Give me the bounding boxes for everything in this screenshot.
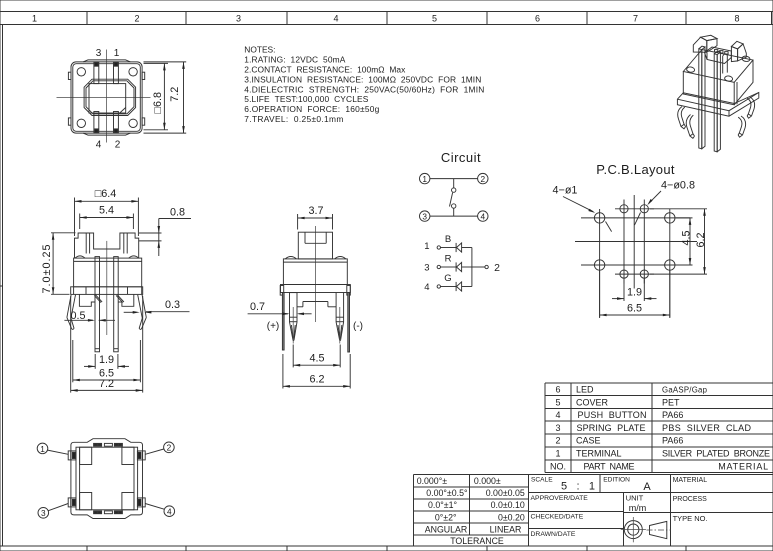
front view: dimension 7.2 extension and line (71, 296, 143, 393)
svg-text:PUSH BUTTON: PUSH BUTTON (578, 410, 647, 420)
svg-text:TOLERANCE: TOLERANCE (450, 536, 504, 546)
svg-text:COVER: COVER (576, 397, 609, 407)
3d view: pushbutton cap left prong (693, 35, 717, 52)
svg-text:4: 4 (480, 212, 485, 222)
svg-text:7.2: 7.2 (99, 378, 114, 390)
side view: dimension 3.7 extension and line (298, 214, 333, 230)
circuit: LED pin 1 node (424, 241, 440, 252)
left border line (0, 25, 3, 547)
3d view: bent leg front-left (686, 115, 694, 139)
pcb layout: 4 large holes dia 1 (594, 213, 675, 270)
side view: polarity labels (267, 321, 363, 332)
svg-text:ANGULAR: ANGULAR (425, 524, 468, 534)
front view: dimension 5.4 line (80, 216, 134, 219)
pcb layout: leader 4-dia1 (563, 197, 612, 232)
svg-text:2: 2 (555, 436, 560, 446)
circuit: wire to pin 2 (472, 262, 500, 274)
3d view: case body sides (683, 60, 753, 105)
svg-text:NOTES:: NOTES: (244, 45, 275, 55)
circuit: switch contact (450, 179, 456, 217)
side view: leader 0.7 (248, 313, 312, 316)
title block: scale cell (531, 477, 595, 493)
svg-text:2.CONTACT RESISTANCE: 100mΩ: 2.CONTACT RESISTANCE: 100mΩ Max (244, 65, 406, 75)
svg-text:0.0°±1°: 0.0°±1° (428, 500, 457, 510)
svg-text:4.5: 4.5 (309, 353, 324, 365)
front view: right clip block (118, 294, 134, 306)
circuit: common bus wire (471, 248, 473, 287)
svg-text:3: 3 (236, 14, 241, 24)
top view: centerlines (57, 50, 151, 143)
3d view: pushbutton cap center deck (705, 47, 732, 64)
circuit: terminal 2 circle (478, 173, 488, 184)
3d view: bent leg front-right (738, 116, 746, 137)
top view: pin number labels 3 1 4 2 (96, 48, 121, 151)
svg-text:1: 1 (114, 48, 120, 59)
bottom view: balloon 2 (145, 442, 174, 454)
svg-text:0.000±: 0.000± (474, 476, 501, 486)
svg-text:LINEAR: LINEAR (490, 524, 522, 534)
bottom view: balloon 3 (38, 504, 68, 519)
3d view: top face corner holes (686, 56, 750, 82)
3d view: tall LED pin right (714, 51, 720, 152)
svg-text:PET: PET (662, 397, 680, 407)
tolerance table row 1 (417, 476, 501, 486)
front view: dimension 6.4 extension lines (75, 198, 139, 237)
bottom view: terminal 2 tab (137, 451, 145, 460)
svg-text:2: 2 (480, 174, 485, 184)
tolerance table row 5 (425, 524, 522, 534)
svg-text:4: 4 (96, 140, 102, 151)
bottom view: corner blocks (80, 447, 134, 510)
svg-text:6: 6 (535, 14, 540, 24)
svg-text:CASE: CASE (576, 436, 601, 446)
svg-text:m/m: m/m (629, 503, 647, 513)
svg-text:2: 2 (115, 140, 121, 151)
front view: left splayed leg (67, 295, 76, 330)
svg-text:4: 4 (424, 282, 429, 293)
front view: dimension 6.4 line (75, 200, 139, 203)
svg-text:R: R (445, 253, 452, 264)
parts table row NO. (550, 461, 768, 471)
svg-text:5.LIFE TEST:100,000 CYCLES: 5.LIFE TEST:100,000 CYCLES (244, 94, 368, 104)
svg-text:P.C.B.Layout: P.C.B.Layout (596, 162, 675, 177)
parts table: grid (545, 383, 773, 473)
side view: centerline (314, 226, 316, 322)
top view: inner octagon frame (84, 79, 136, 115)
bottom view: bottom slot marks (94, 511, 123, 514)
3d view: case body top face (683, 50, 753, 83)
title block: projection symbol (621, 517, 671, 542)
svg-text:0.3: 0.3 (165, 299, 180, 311)
svg-text:4−ø1: 4−ø1 (553, 185, 578, 197)
svg-text:8: 8 (734, 14, 739, 24)
title block: unit cell (626, 493, 647, 513)
circuit: terminal 1 circle (420, 173, 430, 184)
svg-text:CHECKED/DATE: CHECKED/DATE (531, 514, 584, 521)
svg-text:A: A (643, 481, 651, 493)
parts table row 4 (555, 410, 683, 420)
svg-text:1: 1 (40, 444, 45, 454)
3d view: tall LED pin left (699, 46, 705, 149)
parts table row 5 (555, 397, 680, 407)
3d view: bent leg back-left (678, 107, 686, 129)
svg-text:6.2: 6.2 (309, 374, 324, 386)
top view: pushbutton square (89, 84, 126, 113)
circuit: LED R diode (441, 262, 472, 271)
side view: far side legs edge-on (282, 293, 349, 353)
svg-text:TYPE NO.: TYPE NO. (673, 514, 708, 523)
svg-text:NO.: NO. (550, 461, 566, 471)
side view: dimension 6.2 extension and line (283, 354, 350, 389)
svg-text:1.RATING: 12VDC 50mA: 1.RATING: 12VDC 50mA (244, 55, 345, 65)
svg-text:4: 4 (555, 410, 560, 420)
svg-text:SILVER PLATED BRONZE: SILVER PLATED BRONZE (662, 449, 770, 459)
bottom view: case outline (71, 439, 143, 519)
front view: left clip block (79, 294, 95, 306)
svg-text:7: 7 (633, 14, 638, 24)
svg-text:SCALE: SCALE (531, 477, 553, 484)
svg-text:1: 1 (422, 174, 427, 184)
svg-text:(-): (-) (353, 321, 363, 332)
svg-text:6.2: 6.2 (695, 232, 707, 247)
front view: pushbutton cap outline (75, 233, 139, 258)
svg-text:6: 6 (555, 385, 560, 395)
svg-text:2: 2 (134, 14, 139, 24)
svg-text:2: 2 (494, 262, 500, 274)
svg-text:4.5: 4.5 (680, 230, 692, 245)
side view: case body (283, 257, 347, 285)
3d view: bezel plate 3d (677, 93, 758, 117)
svg-text:PA66: PA66 (662, 410, 683, 420)
side view: knob (298, 232, 332, 259)
svg-text:5 : 1: 5 : 1 (561, 481, 595, 493)
svg-text:2: 2 (167, 443, 172, 453)
svg-text:3.7: 3.7 (308, 205, 323, 217)
svg-text:1: 1 (424, 241, 429, 252)
tolerance table row 2 (426, 488, 525, 498)
svg-text:DRAWN/DATE: DRAWN/DATE (531, 531, 576, 538)
top view: dimension 6.8 extension lines (144, 63, 169, 129)
circuit: terminal 3 circle (420, 211, 430, 222)
svg-text:5: 5 (555, 397, 560, 407)
svg-text:0°±2°: 0°±2° (435, 512, 457, 522)
title block: grid (528, 475, 773, 547)
front view: leader 0.3 to leg (124, 311, 190, 314)
svg-text:TERMINAL: TERMINAL (576, 449, 622, 459)
front view: dimension 7.0 extension lines (51, 233, 76, 294)
svg-text:□6.4: □6.4 (95, 188, 117, 200)
svg-text:EDITION: EDITION (603, 477, 630, 484)
top view: outer case outline (71, 62, 142, 133)
bottom view: terminal 3 tab (68, 498, 76, 507)
front view: LED terminal pins (95, 257, 118, 352)
svg-text:PA66: PA66 (662, 436, 683, 446)
tolerance table: grid (414, 475, 529, 547)
svg-text:LED: LED (576, 385, 594, 395)
pcb layout: dimension 6.2 (650, 209, 707, 274)
svg-text:4.DIELECTRIC STRENGTH: 250VA: 4.DIELECTRIC STRENGTH: 250VAC(50/60Hz) F… (244, 84, 484, 94)
svg-text:1: 1 (32, 14, 37, 24)
circuit: LED pin 3 node (424, 262, 440, 273)
top view: side mounting tabs (68, 72, 144, 125)
front view: leader 0.5 to pin (64, 319, 115, 322)
zone numbers 1-8 (32, 14, 740, 24)
side view: left anode pin (290, 293, 298, 344)
svg-text:7.0±0.25: 7.0±0.25 (41, 245, 53, 294)
svg-text:GaASP/Gap: GaASP/Gap (662, 386, 708, 395)
svg-text:6.OPERATION FORCE: 160±50g: 6.OPERATION FORCE: 160±50g (244, 104, 379, 114)
pcb layout: 4 small holes dia 0.8 (620, 205, 649, 279)
svg-text:5.4: 5.4 (99, 205, 114, 217)
3d view: pushbutton cap right prong (731, 41, 746, 61)
bottom view: balloon 1 (37, 443, 68, 454)
svg-text:0.7: 0.7 (250, 301, 265, 313)
top view: terminal pins through case (94, 62, 119, 133)
top view: dimension 6.8 line (163, 63, 166, 129)
front view: base bezel plate (71, 287, 143, 295)
svg-text:PART NAME: PART NAME (584, 461, 635, 471)
circuit: LED pin 4 node (424, 282, 440, 293)
svg-text:0.00±0.05: 0.00±0.05 (486, 488, 525, 498)
pcb layout: dimension 6.5 (600, 270, 670, 317)
svg-text:7.2: 7.2 (169, 87, 181, 102)
svg-text:7.TRAVEL: 0.25±0.1mm: 7.TRAVEL: 0.25±0.1mm (244, 114, 343, 124)
parts table row 2 (555, 436, 683, 446)
parts table row 3 (555, 423, 751, 433)
svg-text:PBS SILVER CLAD: PBS SILVER CLAD (662, 423, 752, 433)
svg-text:Circuit: Circuit (441, 150, 481, 165)
svg-text:3: 3 (41, 508, 46, 518)
tolerance table row 4 (435, 512, 525, 522)
svg-text:4: 4 (333, 14, 338, 24)
parts table row 6 (555, 385, 707, 395)
svg-text:1.9: 1.9 (627, 286, 642, 298)
svg-text:4: 4 (167, 507, 172, 517)
notes text block (244, 45, 484, 125)
svg-text:0±0.20: 0±0.20 (498, 512, 525, 522)
bottom view: top slot marks (94, 443, 123, 446)
svg-text:SPRING PLATE: SPRING PLATE (577, 423, 646, 433)
svg-text:B: B (445, 234, 451, 245)
side view: bezel plate (280, 285, 350, 296)
svg-text:3.INSULATION RESISTANCE: 100: 3.INSULATION RESISTANCE: 100MΩ 250VDC FO… (244, 74, 481, 84)
svg-text:0.0±0.10: 0.0±0.10 (491, 500, 525, 510)
bottom view: terminal 1 tab (68, 451, 76, 460)
svg-text:3: 3 (96, 48, 102, 59)
front view: dimension 7.0 line (52, 233, 55, 294)
circuit: LED B diode (441, 243, 472, 252)
svg-text:5: 5 (432, 14, 437, 24)
svg-text:0.000°±: 0.000°± (417, 476, 448, 486)
front view: case body (74, 256, 142, 287)
bottom view: terminal 4 tab (137, 498, 145, 507)
front view: centerline (106, 241, 108, 335)
svg-text:G: G (444, 273, 451, 284)
3d view: rear contact pin stub (723, 54, 728, 74)
side view: dimension 4.5 extension and line (293, 345, 340, 368)
pcb layout: dimension 1.9 (612, 278, 657, 301)
pcb layout: leader 4-dia0.8 (635, 191, 662, 225)
svg-text:6.5: 6.5 (627, 303, 642, 315)
svg-text:0.8: 0.8 (170, 206, 185, 218)
side view: right cathode pin (336, 293, 344, 344)
tolerance table row 3 (428, 500, 525, 510)
circuit: LED G diode (441, 282, 472, 291)
svg-text:3: 3 (424, 262, 429, 273)
front view: spring contact diagonals (94, 295, 124, 303)
bottom view: balloon 4 (145, 504, 174, 517)
front view: dimension 6.5 extension and line (73, 340, 141, 382)
drawing frame: top zone band (0, 12, 773, 25)
top view: corner holes (77, 68, 137, 128)
top view: cover flange arcs behind case (83, 60, 131, 135)
svg-text:□6.8: □6.8 (152, 92, 164, 114)
bottom border line with zone ticks (0, 546, 773, 551)
parts table row 1 (555, 449, 770, 459)
svg-text:UNIT: UNIT (626, 493, 644, 502)
svg-text:4−ø0.8: 4−ø0.8 (661, 180, 695, 192)
svg-text:1: 1 (555, 449, 560, 459)
circuit: wire 1-2 (430, 178, 478, 180)
side view: inner housing step profile (297, 302, 336, 307)
circuit: wire 3-4 (430, 215, 478, 217)
top view: dimension 7.2 extension lines (144, 62, 187, 133)
front view: dimension 5.4 extension lines (80, 214, 134, 230)
front view: dimension 1.9 extension and line (84, 354, 129, 369)
top view: dimension 7.2 line (182, 62, 185, 133)
svg-text:(+): (+) (267, 321, 280, 332)
svg-text:1.9: 1.9 (99, 354, 114, 366)
circuit: terminal 4 circle (478, 211, 488, 222)
bottom view: inner frame (76, 447, 138, 510)
svg-text:0.00°±0.5°: 0.00°±0.5° (426, 488, 467, 498)
svg-text:MATERIAL: MATERIAL (718, 461, 768, 471)
svg-text:PROCESS: PROCESS (673, 496, 708, 503)
front view: dimension 0.8 leader and arrows (139, 219, 191, 257)
title block: edition cell (603, 477, 651, 493)
front view: right splayed leg (138, 295, 147, 330)
svg-text:0.5: 0.5 (70, 310, 85, 322)
pcb layout: grid lines (575, 195, 697, 318)
svg-text:3: 3 (555, 423, 560, 433)
3d view: bent leg back-right (747, 97, 755, 118)
svg-text:APPROVER/DATE: APPROVER/DATE (531, 495, 589, 502)
pcb layout: dimension 4.5 (676, 218, 693, 265)
svg-text:MATERIAL: MATERIAL (673, 477, 708, 484)
svg-text:3: 3 (422, 212, 427, 222)
